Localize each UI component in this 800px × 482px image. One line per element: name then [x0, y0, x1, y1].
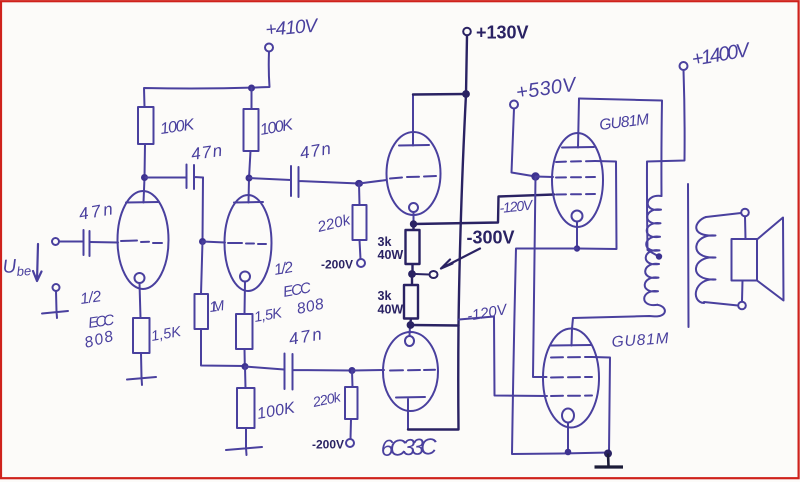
resistor 3k 40W upper [406, 227, 420, 271]
capacitor C1 47n [84, 230, 90, 256]
tube V2 plate bar [234, 201, 263, 204]
svg-text:1/2: 1/2 [79, 288, 103, 308]
ground stage2 [226, 447, 262, 455]
tube V1 1/2 ECC808 envelope [118, 191, 169, 289]
wire tap to terminal [416, 273, 430, 276]
node top 6C33C cathode [410, 220, 417, 227]
svg-text:3k: 3k [378, 289, 392, 303]
tube bottom grid dashes [390, 369, 435, 372]
tube GU81M bottom plate lead [571, 329, 574, 346]
tube GU81M bottom g2 dashes [551, 376, 592, 379]
node g2 [531, 172, 539, 180]
svg-text:-200V: -200V [312, 438, 344, 452]
resistor R1 100K [138, 107, 154, 144]
tube top cathode circle [409, 203, 418, 212]
resistor 3k 40W lower [404, 278, 418, 323]
tube V1 cathode circle [135, 273, 145, 283]
tube GU81M top envelope [552, 133, 603, 227]
wire R6 to ground [245, 428, 247, 447]
ground input [53, 284, 60, 291]
arrow -300V [441, 249, 480, 269]
speaker leads [742, 217, 746, 302]
node ground [604, 450, 612, 458]
svg-text:40W: 40W [378, 248, 404, 262]
tube GU81M top g3 dashes [556, 161, 595, 162]
capacitor C3 47n [249, 166, 359, 197]
primary bottom curl to bottom GU81M anode wire [572, 305, 665, 329]
speaker box [732, 239, 758, 281]
wire R8 to -200V [350, 419, 353, 439]
tube GU81M bottom cathode circle [562, 409, 574, 423]
tube V2 cathode lead [244, 282, 247, 315]
tube GU81M top plate lead [578, 99, 579, 148]
tube GU81M top g2 dashes [556, 176, 595, 179]
capacitor C2 47n [146, 165, 204, 190]
wire C2 to V2 grid node [202, 178, 205, 242]
tube GU81M top cathode circle [572, 211, 583, 222]
node V1 anode [141, 174, 148, 181]
wire +530V to g2 node [512, 109, 536, 177]
tube V1 anode lead [144, 178, 145, 203]
tube bottom 6C33C envelope [383, 332, 438, 411]
tube bottom plate bar [396, 396, 425, 399]
resistor R6 100K [237, 367, 255, 429]
tube bottom plate lead [407, 399, 409, 430]
wire -120V to g1 [459, 317, 547, 397]
resistor R2 100K [244, 88, 259, 151]
node cathode [574, 245, 580, 251]
wire secondary top to terminal [706, 213, 741, 217]
wire secondary bottom to terminal [704, 302, 738, 306]
svg-text:1/2: 1/2 [273, 259, 295, 279]
wire +130V down long [408, 36, 467, 430]
node V2 grid [199, 238, 206, 245]
terminal -300V [430, 271, 438, 278]
svg-text:ECC: ECC [87, 311, 115, 331]
resistor R7 220k [353, 184, 367, 241]
ground symbol right [607, 454, 610, 467]
node center tap [656, 253, 662, 259]
terminal speaker bottom [738, 302, 746, 310]
svg-text:+130V: +130V [476, 23, 529, 43]
tube top anode lead [412, 95, 414, 146]
transformer secondary coil [696, 217, 716, 303]
tube top cathode lead [413, 212, 415, 221]
wire GU81M top anode to primary top [579, 99, 662, 197]
transformer core [687, 184, 690, 327]
tube GU81M top plate bar [562, 146, 594, 149]
wire R3 to ground [140, 353, 143, 377]
terminal +530V [510, 101, 518, 109]
resistor R4 1M [195, 242, 209, 330]
transformer primary coil [644, 196, 661, 305]
terminal -200V lower [346, 439, 354, 447]
tube V2 1/2 ECC808 envelope [225, 195, 272, 291]
tube GU81M top cathode lead [576, 222, 578, 247]
node rail R2 [248, 85, 255, 92]
terminal +1400V [680, 62, 688, 70]
resistor R3 1.5K [133, 318, 150, 353]
node +130 top [462, 90, 470, 98]
node -300V tap [408, 270, 416, 278]
svg-text:-200V: -200V [321, 258, 353, 272]
tube top 6C33C envelope [387, 132, 441, 215]
tube GU81M bottom g3 dashes [551, 356, 592, 359]
tube top plate bar [399, 144, 429, 147]
wire input to C1 [59, 241, 83, 243]
arrow Ube [33, 244, 42, 281]
tube GU81M bottom cathode lead [567, 423, 569, 452]
wire +410 rail [144, 52, 270, 108]
wire R4 to node [201, 329, 245, 366]
node V2 anode [246, 175, 253, 182]
tube GU81M bottom g1 dashes [551, 395, 592, 398]
tube V2 grid dashes [228, 243, 266, 244]
node C4 out [349, 367, 356, 374]
tube bottom cathode circle [405, 336, 414, 346]
tube V1 cathode lead [140, 283, 141, 318]
svg-text:3k: 3k [378, 235, 392, 249]
wire C1 to V1 grid [90, 241, 118, 244]
tube GU81M bottom plate bar [551, 344, 591, 347]
node stage2 cathode [242, 363, 249, 370]
tube top grid dashes [390, 176, 436, 179]
wire g3 to cathode [578, 161, 617, 249]
terminal +130V [463, 28, 471, 36]
wire node to T on +130 line [411, 324, 459, 327]
terminal speaker top [741, 209, 749, 217]
tube GU81M top g1 dashes [556, 193, 595, 196]
speaker cone [757, 218, 784, 301]
svg-text:-300V: -300V [467, 228, 515, 248]
wire g3 to ground [592, 357, 610, 453]
resistor R5 1.5K [236, 314, 253, 349]
svg-text:6C33C: 6C33C [380, 433, 437, 461]
node bottom cathode [565, 449, 572, 456]
wire +1400V to center tap [647, 70, 685, 256]
wire top 6C33C cathode to GU81M grid [414, 195, 555, 225]
node input terminal [52, 238, 59, 245]
tube bottom lead from node [409, 326, 412, 336]
wire +130 to top 6C33C anode [413, 93, 466, 96]
wire grid node to V2 [203, 242, 226, 243]
wire R7 to -200V [360, 240, 361, 259]
wire grid top 6C33C [359, 180, 387, 184]
capacitor C4 47n [245, 354, 352, 390]
wire g2 node to tube [536, 176, 554, 179]
node bottom 6C33C top [407, 321, 415, 329]
svg-text:40W: 40W [378, 303, 404, 317]
wire grid bottom 6C33C [352, 369, 384, 372]
tube V2 cathode circle [240, 272, 250, 282]
tube GU81M bottom envelope [543, 329, 599, 428]
wire R2 to V2 anode [249, 151, 251, 178]
tube V1 plate bar [126, 201, 159, 204]
ground stage1 [127, 377, 156, 385]
tube V2 anode lead [248, 178, 251, 203]
terminal -200V upper [357, 259, 365, 267]
wire R5 to node [244, 349, 246, 366]
wire g2 node down to bottom GU81M g2 [533, 177, 547, 378]
tube V1 grid dashes [121, 241, 162, 244]
node C3 out [355, 180, 363, 187]
wire cathode to ground rail [512, 249, 609, 455]
wire R1 to anode node [144, 144, 147, 178]
terminal +410V [265, 44, 273, 52]
resistor R8 220k [345, 371, 358, 420]
